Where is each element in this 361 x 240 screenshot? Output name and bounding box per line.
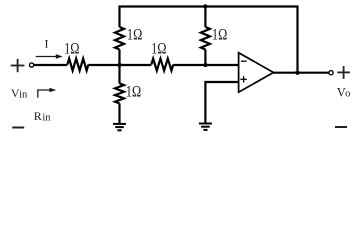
svg-text:in: in	[19, 90, 28, 101]
svg-text:1Ω: 1Ω	[212, 26, 227, 43]
svg-text:1Ω: 1Ω	[126, 84, 141, 101]
svg-text:in: in	[42, 112, 51, 123]
svg-text:R: R	[34, 109, 42, 123]
svg-text:I: I	[45, 37, 49, 51]
svg-text:1Ω: 1Ω	[151, 41, 166, 58]
svg-text:o: o	[345, 89, 350, 100]
svg-text:1Ω: 1Ω	[64, 41, 79, 58]
svg-text:1Ω: 1Ω	[127, 26, 142, 43]
